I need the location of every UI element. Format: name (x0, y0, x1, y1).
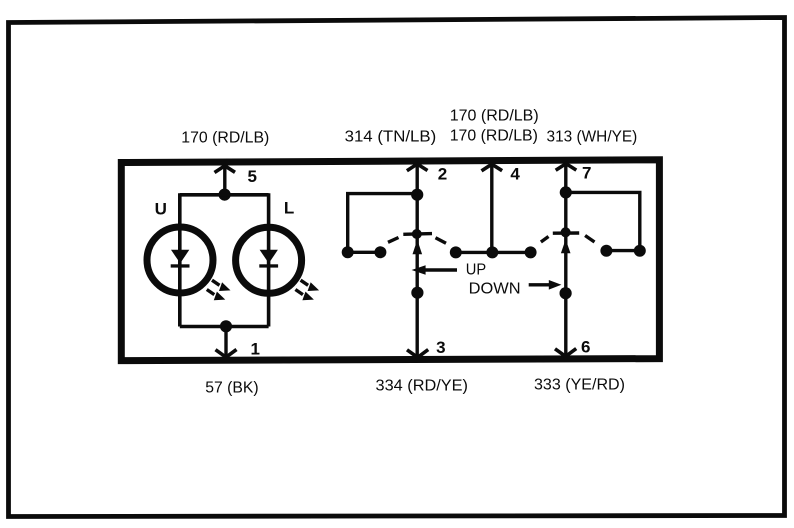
up switch wiper dashed arc (388, 234, 446, 244)
svg-text:4: 4 (510, 164, 520, 183)
up switch wiper arm arrowhead (413, 240, 423, 255)
LED lamp U diode triangle (171, 250, 189, 263)
down switch wiper dashed arc (541, 233, 595, 242)
pin 6 arrowhead (555, 349, 576, 357)
common contact dot right (525, 246, 537, 258)
wire: pin 7 to pin 6 vertical (564, 164, 567, 356)
LED lamp L circle (236, 227, 302, 293)
pin 4 arrowhead (482, 164, 503, 171)
wire: lamp L branch vertical (267, 193, 271, 326)
svg-text:170 (RD/LB): 170 (RD/LB) (450, 107, 539, 124)
up switch contact dot left (342, 246, 354, 258)
wire: up switch feed to left contact (348, 194, 418, 253)
common feed dot center (486, 246, 498, 258)
svg-text:U: U (155, 200, 167, 219)
svg-text:314 (TN/LB): 314 (TN/LB) (345, 129, 437, 146)
svg-text:7: 7 (582, 163, 591, 182)
wire: down switch feed to right contact (566, 192, 640, 250)
up switch wiper pivot dot (412, 229, 422, 239)
node: lamp top junction dot (219, 189, 231, 201)
svg-text:3: 3 (436, 338, 445, 357)
UP pointer arrow (412, 265, 426, 275)
node: up switch lower dot (411, 287, 423, 299)
svg-text:L: L (284, 199, 294, 218)
node: down switch lower dot (560, 287, 572, 299)
wire: common contact rail (456, 251, 531, 254)
down switch contact dot left (600, 245, 612, 257)
svg-text:5: 5 (248, 167, 257, 186)
down switch wiper pivot dot (561, 227, 571, 237)
wire: lamp top rail (180, 193, 269, 197)
svg-text:UP: UP (466, 261, 486, 278)
DOWN pointer arrow (529, 283, 551, 286)
LED lamp U diode cathode bar (171, 264, 190, 267)
pin 3 arrowhead (407, 350, 428, 358)
LED lamp L emission arrows (295, 280, 318, 300)
svg-text:313 (WH/YE): 313 (WH/YE) (547, 129, 638, 146)
wire: lamp bottom rail (180, 325, 269, 329)
pin 5 arrowhead (215, 166, 236, 173)
svg-text:57 (BK): 57 (BK) (205, 379, 258, 396)
svg-text:6: 6 (581, 338, 590, 357)
svg-text:DOWN: DOWN (469, 280, 521, 297)
node: down switch feed junction (560, 186, 572, 198)
pin 1 arrowhead (216, 350, 237, 358)
node: up switch feed junction (411, 189, 423, 201)
wire: pin 2 to pin 3 vertical (416, 164, 419, 356)
LED lamp L diode cathode bar (259, 264, 278, 267)
svg-text:170 (RD/LB): 170 (RD/LB) (450, 128, 538, 145)
LED lamp U circle (147, 227, 213, 293)
pin 2 arrowhead (407, 164, 428, 171)
up switch contact dot right (374, 246, 386, 258)
down switch wiper arm arrowhead (561, 239, 571, 253)
svg-text:170 (RD/LB): 170 (RD/LB) (181, 130, 269, 147)
wire: lamp U branch vertical (178, 193, 182, 326)
down switch contact dot right (634, 245, 646, 257)
pin 1 lead wire (224, 326, 227, 356)
svg-text:333 (YE/RD): 333 (YE/RD) (534, 377, 625, 394)
svg-text:1: 1 (251, 340, 260, 359)
node: lamp bottom junction dot (220, 320, 232, 332)
pin 7 arrowhead (556, 164, 577, 171)
svg-text:2: 2 (438, 165, 447, 184)
LED lamp U emission arrows (207, 280, 230, 300)
svg-text:334 (RD/YE): 334 (RD/YE) (376, 378, 469, 395)
LED lamp L diode triangle (260, 250, 278, 263)
pin 5 lead wire (223, 166, 226, 195)
common contact dot left (450, 246, 462, 258)
switch housing box (121, 160, 659, 361)
wire: pin 4 vertical (490, 164, 493, 252)
